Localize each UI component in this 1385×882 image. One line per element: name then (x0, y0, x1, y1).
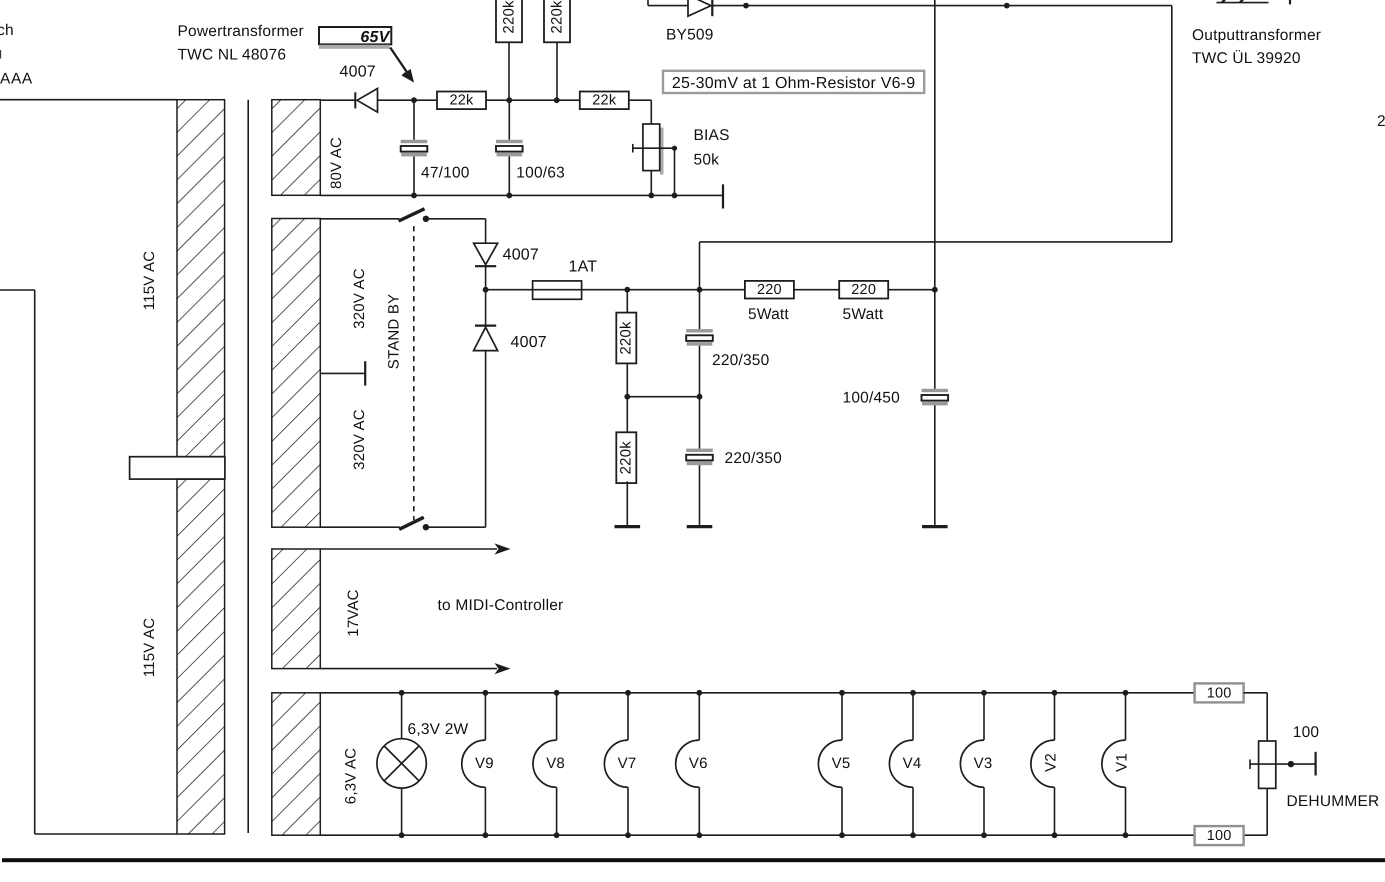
wire MIDI bottom + arrow (320, 663, 510, 674)
transformer T1 primary tap (130, 457, 225, 479)
svg-text:5Watt: 5Watt (843, 306, 884, 323)
label 80V AC (328, 137, 345, 189)
label Powertransformer (178, 23, 304, 64)
tube heater V8 (533, 693, 557, 835)
node S1b contact (423, 524, 429, 530)
node divider mid right (697, 394, 703, 400)
svg-text:V9: V9 (475, 755, 494, 772)
wire R1-R2 (486, 99, 580, 101)
wire divider mid (627, 396, 699, 398)
center tap 320V (320, 361, 365, 385)
wiper node P1 (672, 146, 677, 196)
wire 320V bottom lead (320, 526, 400, 528)
wire pot to R10 (1244, 788, 1268, 835)
label V7 (618, 755, 637, 772)
wire heater top rail (320, 692, 1194, 694)
wire R5-R6 (794, 289, 839, 291)
node V4 bottom (910, 832, 916, 838)
tube heater V3 (960, 693, 984, 835)
svg-text:V8: V8 (546, 755, 565, 772)
label Outputtransformer (1192, 27, 1321, 67)
resistor R5 220 5Watt (745, 281, 794, 299)
wire bias ground rail (320, 194, 723, 196)
svg-text:V5: V5 (832, 755, 851, 772)
node V5 top (839, 690, 845, 696)
wire BY509 cathode row (712, 5, 1172, 7)
svg-text:to MIDI-Controller: to MIDI-Controller (438, 597, 564, 614)
resistor R7 220k divider upper (616, 290, 636, 397)
transformer T1 secondary 80V AC (272, 100, 321, 196)
transformer T1 secondary 6,3V AC (272, 693, 321, 835)
resistor R3 220k (to top rail) (496, 0, 522, 100)
label V6 (689, 755, 708, 772)
label 25-30mV note (663, 71, 924, 93)
switch S1b blade (399, 517, 424, 529)
svg-text:5Watt: 5Watt (748, 306, 789, 323)
node S1a contact (423, 216, 429, 222)
node junction divider top (624, 287, 630, 293)
svg-text:V6: V6 (689, 755, 708, 772)
wire heater bottom rail (320, 834, 1194, 836)
label DEHUMMER (1287, 793, 1380, 810)
label C2 100/63 (516, 165, 565, 182)
wire R6 to HT bus (888, 289, 935, 291)
svg-text:220: 220 (757, 282, 782, 298)
svg-text:320V AC: 320V AC (351, 409, 368, 470)
label 320V AC lower (351, 409, 368, 470)
node V9 top (483, 690, 489, 696)
svg-text:100/450: 100/450 (843, 390, 901, 407)
label 100 pot (1293, 724, 1320, 741)
label 6,3V 2W (408, 721, 469, 738)
svg-text:17VAC: 17VAC (345, 589, 362, 636)
text partial glyph (0, 50, 1, 59)
wire HT bus vertical (V6-9 plate) (934, 0, 936, 290)
svg-text:100/63: 100/63 (516, 165, 565, 182)
label 6,3V AC (343, 748, 360, 804)
node V1 bottom (1123, 832, 1129, 838)
svg-text:220/350: 220/350 (725, 450, 783, 467)
resistor R6 220 5Watt (839, 281, 888, 299)
label 115V AC lower (141, 618, 158, 678)
node V7 top (625, 690, 631, 696)
lamp LP1 6,3V 2W (377, 693, 426, 835)
svg-text:47/100: 47/100 (421, 165, 470, 182)
label 5Watt R5 (748, 306, 789, 323)
label 17VAC (345, 589, 362, 636)
svg-text:80V AC: 80V AC (328, 137, 345, 189)
wire S1b to rectifier (426, 526, 486, 528)
svg-text:6,3V 2W: 6,3V 2W (408, 721, 469, 738)
label V3 (974, 755, 993, 772)
label BY509 (666, 27, 714, 44)
svg-text:320V AC: 320V AC (351, 268, 368, 329)
svg-text:TWC ÜL 39920: TWC ÜL 39920 (1192, 50, 1301, 67)
arrow from 65V flag (390, 48, 414, 83)
diode D1 4007 (80V) (355, 89, 437, 113)
label 4007 D1 (340, 64, 376, 81)
svg-text:4007: 4007 (503, 247, 539, 264)
transformer T1 primary winding upper (177, 100, 225, 457)
label C5 100/450 (843, 390, 901, 407)
resistor R10 100 bottom (1195, 826, 1244, 845)
svg-text:AAA: AAA (0, 71, 33, 88)
page border bottom (2, 858, 1385, 862)
tube heater V9 (462, 693, 486, 835)
capacitor C4 220/350 lower (686, 397, 713, 527)
label BIAS 50k (694, 127, 730, 169)
ground divider (615, 525, 641, 528)
label C3 220/350 (712, 352, 770, 369)
node lamp bottom (399, 832, 405, 838)
svg-text:V7: V7 (618, 755, 637, 772)
svg-text:220k: 220k (618, 321, 635, 355)
wiper node P2 (1288, 761, 1316, 767)
svg-text:50k: 50k (694, 152, 720, 169)
node V3 bottom (981, 832, 987, 838)
wire MIDI top + arrow (320, 543, 510, 554)
fuse F1 1AT (486, 281, 745, 299)
svg-text:115V AC: 115V AC (141, 251, 158, 311)
svg-text:4007: 4007 (511, 334, 547, 351)
svg-text:22k: 22k (450, 93, 475, 109)
svg-text:100: 100 (1207, 685, 1232, 701)
transformer T1 secondary 320V AC (272, 219, 321, 528)
node junction top row 1 (743, 3, 749, 9)
node V1 top (1123, 690, 1129, 696)
svg-text:BIAS: BIAS (694, 127, 730, 144)
diode D3 BY509 (688, 0, 712, 16)
ground caps (687, 525, 713, 528)
node junction cap 100/63 (506, 97, 512, 103)
transformer T1 secondary 17VAC (272, 549, 321, 669)
node junctions on bias rail (411, 193, 677, 199)
svg-text:65V: 65V (360, 29, 390, 46)
label C1 47/100 (421, 165, 470, 182)
tube heater V4 (889, 693, 913, 835)
capacitor C2 100/63 (496, 100, 523, 195)
wire 320V top lead (320, 218, 399, 220)
svg-text:220k: 220k (618, 441, 635, 475)
resistor R8 220k divider lower (616, 397, 636, 527)
node junction 65V (411, 97, 417, 103)
wire R9 to pot (1244, 693, 1268, 741)
svg-text:V4: V4 (903, 755, 922, 772)
transformer T1 core (247, 100, 249, 833)
potentiometer P2 DEHUMMER (1250, 741, 1291, 788)
terminal bar bias rail (722, 184, 724, 208)
resistor R9 100 top (1195, 683, 1244, 702)
ground C5 (922, 525, 948, 528)
svg-text:BY509: BY509 (666, 27, 714, 44)
node V8 top (554, 690, 560, 696)
svg-text:Outputtransformer: Outputtransformer (1192, 27, 1321, 44)
svg-text:1AT: 1AT (569, 259, 598, 276)
diode D4 4007 top (474, 243, 498, 290)
node V4 top (910, 690, 916, 696)
capacitor C3 220/350 upper (686, 290, 713, 397)
text ch (clipped) (0, 22, 14, 39)
label 115V AC upper (141, 251, 158, 311)
node V2 bottom (1052, 832, 1058, 838)
wire output loop horizontal (700, 241, 1172, 243)
label V1 (1114, 753, 1131, 772)
node junction HT bus (932, 287, 938, 293)
text AAA (clipped) (0, 71, 33, 88)
svg-text:V1: V1 (1114, 753, 1131, 772)
node lamp top (399, 690, 405, 696)
node V9 bottom (483, 832, 489, 838)
wire 80V node row (320, 99, 354, 101)
label V2 (1043, 753, 1060, 772)
wire output loop left vertical (699, 242, 701, 290)
capacitor C1 47/100 (401, 100, 428, 195)
node V6 bottom (696, 832, 702, 838)
diode D5 4007 bottom (474, 290, 498, 528)
label STAND BY (386, 294, 403, 370)
tube heater V7 (604, 693, 628, 835)
node junction 220k drop (554, 97, 560, 103)
resistor R2 22k (580, 92, 629, 110)
terminal bar P2 (1314, 752, 1316, 776)
svg-text:220k: 220k (500, 0, 517, 34)
svg-text:220k: 220k (548, 0, 565, 34)
text 2 (clipped right) (1377, 113, 1385, 130)
wire R2 to bias pot (628, 100, 651, 124)
label 320V AC upper (351, 268, 368, 329)
label V5 (832, 755, 851, 772)
svg-text:22k: 22k (592, 93, 617, 109)
stand-by dashed link (413, 226, 415, 520)
node V3 top (981, 690, 987, 696)
label to MIDI-Controller (438, 597, 564, 614)
label 4007 D5 (511, 334, 547, 351)
label C4 220/350 (725, 450, 783, 467)
node junction cap1 top (697, 287, 703, 293)
svg-text:V3: V3 (974, 755, 993, 772)
node AAA lead-in wire (0, 290, 177, 834)
svg-text:DEHUMMER: DEHUMMER (1287, 793, 1380, 810)
node V5 bottom (839, 832, 845, 838)
wire anode row (648, 5, 688, 7)
wire primary top lead (0, 99, 177, 101)
svg-text:TWC NL 48076: TWC NL 48076 (178, 47, 287, 64)
svg-text:25-30mV at 1 Ohm-Resistor V6-9: 25-30mV at 1 Ohm-Resistor V6-9 (672, 75, 915, 92)
tube heater V5 (818, 693, 842, 835)
resistor R4 220k (to top rail) (544, 0, 570, 100)
label 65V flag (319, 27, 391, 49)
transformer T1 primary winding lower (177, 479, 225, 834)
svg-text:220: 220 (851, 282, 876, 298)
capacitor C5 100/450 (922, 290, 949, 527)
svg-text:STAND BY: STAND BY (386, 294, 403, 370)
svg-text:Powertransformer: Powertransformer (178, 23, 304, 40)
svg-text:100: 100 (1207, 828, 1232, 844)
label V8 (546, 755, 565, 772)
potentiometer P1 BIAS 50k (633, 124, 675, 195)
label 1AT (569, 259, 598, 276)
resistor R1 22k (437, 92, 486, 110)
svg-text:ch: ch (0, 22, 14, 39)
wire output loop right vertical (1171, 6, 1173, 242)
node V6 top (696, 690, 702, 696)
wire stub from above (647, 0, 649, 6)
tube heater V6 (676, 693, 700, 835)
svg-text:6,3V AC: 6,3V AC (343, 748, 360, 804)
node divider mid left (624, 394, 630, 400)
wire S1a to rectifier (426, 219, 486, 243)
node V7 bottom (625, 832, 631, 838)
svg-text:2: 2 (1377, 113, 1385, 130)
node V2 top (1052, 690, 1058, 696)
svg-text:115V AC: 115V AC (141, 618, 158, 678)
svg-text:V2: V2 (1043, 753, 1060, 772)
node junction top row 2 (1004, 3, 1010, 9)
tube heater V1 (1102, 693, 1126, 835)
switch S1a blade (399, 209, 425, 221)
label V9 (475, 755, 494, 772)
outputtransformer remnant (1217, 0, 1291, 4)
label V4 (903, 755, 922, 772)
node V8 bottom (554, 832, 560, 838)
label 4007 D4 (503, 247, 539, 264)
svg-text:100: 100 (1293, 724, 1320, 741)
svg-text:220/350: 220/350 (712, 352, 770, 369)
svg-text:4007: 4007 (340, 64, 376, 81)
label 5Watt R6 (843, 306, 884, 323)
tube heater V2 (1031, 693, 1055, 835)
node rectifier junction (483, 287, 489, 293)
